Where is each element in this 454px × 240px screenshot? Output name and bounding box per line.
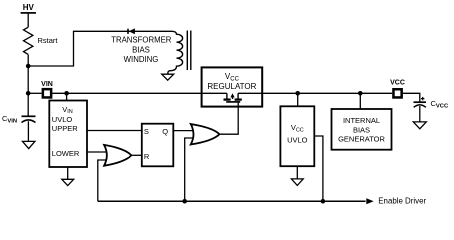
wire left rail	[27, 66, 29, 116]
wire enable feedback to reset OR	[98, 160, 107, 201]
net label HV	[21, 3, 36, 13]
junction dot rail VCC UVLO	[321, 199, 326, 204]
svg-text:UPPER: UPPER	[52, 124, 78, 133]
svg-text:GENERATOR: GENERATOR	[338, 135, 385, 144]
svg-text:HV: HV	[23, 3, 35, 12]
wire enable branch down	[185, 138, 197, 201]
svg-text:UVLO: UVLO	[52, 115, 73, 124]
wire VCC UVLO to rail	[314, 136, 323, 201]
latch SR	[142, 124, 174, 167]
svg-text:Enable Driver: Enable Driver	[378, 197, 426, 206]
svg-text:R: R	[144, 152, 150, 161]
main bus wire VIN side	[28, 92, 201, 94]
wire HV to Rstart	[27, 13, 29, 27]
svg-text:S: S	[144, 127, 149, 136]
pass FET inside regulator	[202, 93, 263, 102]
capacitor CVCC	[414, 97, 427, 122]
ground CVIN	[23, 141, 35, 148]
wire reset OR to R	[131, 154, 141, 156]
junction dot startup node	[26, 64, 31, 69]
wire tap to bias generator	[359, 93, 361, 109]
svg-text:TRANSFORMER: TRANSFORMER	[111, 35, 172, 44]
svg-text:BIAS: BIAS	[132, 46, 150, 55]
block INTERNAL BIAS GENERATOR	[332, 109, 392, 150]
bus wire regulator to VCC	[262, 92, 392, 94]
svg-text:Rstart: Rstart	[38, 36, 59, 45]
svg-text:LOWER: LOWER	[52, 149, 80, 158]
ground VIN UVLO	[62, 167, 74, 186]
block VCC UVLO	[280, 106, 314, 166]
wire enable OR to regulator gate	[219, 102, 238, 134]
transformer bias winding coil	[168, 31, 183, 74]
svg-text:WINDING: WINDING	[124, 55, 159, 64]
ground VCC UVLO	[291, 166, 303, 185]
svg-text:REGULATOR: REGULATOR	[207, 82, 256, 91]
svg-text:INTERNAL: INTERNAL	[343, 116, 380, 125]
wire LOWER to reset OR	[87, 151, 107, 153]
ground bias winding	[162, 74, 174, 80]
or-gate U2 reset	[104, 145, 131, 166]
svg-text:UVLO: UVLO	[287, 135, 308, 144]
bottom rail enable driver net	[98, 200, 366, 202]
junction dot VIN rail	[26, 91, 31, 96]
terminal VCC	[393, 89, 401, 97]
or-gate U4 regulator enable	[191, 124, 220, 145]
svg-text:BIAS: BIAS	[353, 126, 370, 135]
svg-text:VIN: VIN	[41, 81, 53, 88]
wire Rstart to junction	[27, 55, 29, 66]
resistor Rstart	[24, 27, 59, 54]
comparator block VIN UVLO	[49, 101, 87, 168]
wire tap to VCC UVLO	[297, 93, 299, 106]
junction dot bias tap	[358, 91, 363, 96]
arrow enable driver	[366, 198, 373, 204]
wire VCC to CVCC	[402, 93, 420, 101]
wire UPPER to S	[87, 130, 142, 132]
wire junction to transformer	[28, 31, 172, 66]
terminal VIN	[43, 89, 51, 97]
diode bias winding rectifier	[128, 28, 135, 34]
block VCC REGULATOR	[202, 67, 263, 106]
capacitor CVIN	[22, 116, 36, 141]
ground CVCC	[413, 122, 426, 129]
wire Q to enable OR	[173, 130, 196, 132]
junction dot VCC UVLO tap	[295, 91, 300, 96]
junction dot VIN UVLO tap	[64, 91, 69, 96]
transformer core	[187, 31, 191, 71]
svg-text:Q: Q	[162, 127, 168, 136]
wire tap to VIN UVLO	[66, 93, 68, 100]
label TRANSFORMER BIAS WINDING	[111, 35, 172, 64]
svg-text:VCC: VCC	[390, 80, 405, 87]
junction dot enable rail	[182, 199, 187, 204]
